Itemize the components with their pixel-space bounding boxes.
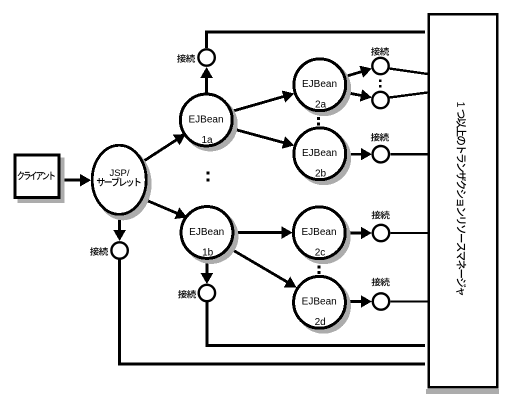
- transaction managers box: [429, 14, 498, 387]
- svg-text:2d: 2d: [315, 317, 326, 328]
- label: 接続 (c): [178, 290, 196, 298]
- transaction managers box shadow: [426, 389, 499, 394]
- wire: conn-f to box: [390, 232, 428, 234]
- connection circle conn-b: [111, 242, 127, 258]
- dots between conn-d1 and conn-d2: [379, 79, 382, 82]
- svg-text:EJBean: EJBean: [188, 114, 223, 125]
- wire: conn-d1 to box: [390, 69, 428, 75]
- wire: 2a to conn-d2 arrow: [346, 93, 364, 96]
- wire: client to JSP arrow: [60, 179, 82, 182]
- wire: 2d to conn-g arrow: [347, 300, 363, 303]
- connection circle conn-d1: [372, 58, 388, 74]
- label: サーブレット: [97, 177, 141, 186]
- wire: 1b to 2d arrow: [229, 248, 289, 283]
- label: 接続 (a): [177, 54, 195, 62]
- EJBean 2d circle: [296, 279, 351, 334]
- svg-text:2b: 2b: [315, 169, 327, 180]
- wire: 2a to conn-d1 arrow: [346, 71, 364, 76]
- wire: 1b conn-c down & right to box: [205, 302, 208, 346]
- dots between 2c and 2d: [317, 265, 320, 268]
- svg-text:EJBean: EJBean: [189, 227, 224, 238]
- label: 接続 (g): [372, 278, 390, 286]
- EJBean 2b circle: [296, 130, 351, 185]
- JSP/servlet ellipse: [92, 145, 146, 214]
- label: 1つ以上のトランザクションリソースマネージャ (vertical): [456, 102, 466, 295]
- label: 接続 (e): [371, 133, 389, 141]
- wire: JSP down to conn-b arrow: [118, 215, 121, 233]
- connection circle conn-d2: [372, 92, 388, 108]
- connection circle conn-f: [373, 225, 389, 241]
- EJBean 1b circle: [184, 209, 239, 264]
- wire: conn-a top to box (top route): [205, 32, 208, 48]
- wire: JSP conn-b down & right to box: [118, 259, 121, 364]
- client box: [15, 155, 59, 198]
- svg-text:EJBean: EJBean: [302, 79, 337, 90]
- wire: conn-g to box: [390, 300, 428, 302]
- connection circle conn-a: [198, 49, 214, 65]
- wire: 1b right to 2c arrow: [234, 231, 284, 234]
- svg-text:1b: 1b: [202, 247, 214, 258]
- wire: 1a to 2b arrow: [232, 129, 286, 144]
- svg-text:JSP/: JSP/: [109, 168, 129, 179]
- label: クライアント: [18, 171, 55, 180]
- svg-text:2c: 2c: [315, 248, 326, 259]
- client box shadow: [17, 157, 64, 203]
- svg-text:EJBean: EJBean: [302, 148, 337, 159]
- wire: 2b to conn-e arrow: [347, 153, 363, 156]
- EJBean 2a circle: [296, 61, 351, 116]
- wire: 2c to conn-f arrow: [347, 232, 363, 235]
- EJBean 2c circle: [296, 209, 351, 264]
- connection circle conn-c: [199, 285, 215, 301]
- dots between 2a and 2b: [317, 117, 320, 120]
- connection circle conn-e: [373, 146, 389, 162]
- wire: JSP to EJBean1b arrow: [140, 198, 179, 215]
- svg-text:1a: 1a: [201, 135, 213, 146]
- wire: conn-e to box: [390, 153, 428, 155]
- connection circle conn-g: [373, 293, 389, 309]
- dots between 1a and 1b: [207, 172, 210, 175]
- wire: JSP to EJBean1a arrow: [140, 139, 178, 164]
- svg-text:2a: 2a: [315, 100, 327, 111]
- EJBean 1a circle: [183, 97, 238, 152]
- wire: 1b down to conn-c arrow: [205, 260, 208, 276]
- svg-text:EJBean: EJBean: [301, 227, 336, 238]
- wire: conn-d2 to box: [390, 93, 428, 98]
- label: 接続 (b): [90, 247, 108, 255]
- wire: 1a up to conn-a arrow: [205, 76, 208, 94]
- svg-text:EJBean: EJBean: [302, 297, 337, 308]
- wire: 1a to 2a arrow: [232, 96, 286, 112]
- JSP/servlet ellipse shadow: [94, 148, 151, 221]
- label: 接続 (f): [372, 211, 390, 219]
- label: 接続 (d): [371, 47, 389, 55]
